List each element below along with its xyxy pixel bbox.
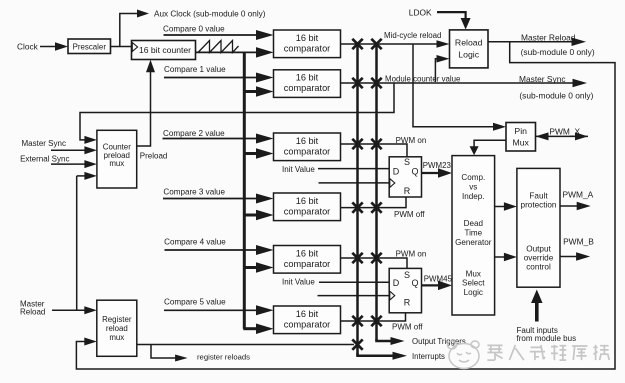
svg-text:Logic: Logic (464, 288, 483, 297)
svg-text:comparator: comparator (284, 146, 330, 156)
svg-text:16 bit: 16 bit (296, 33, 319, 43)
svg-text:Master Reload: Master Reload (521, 33, 576, 43)
svg-text:Mux: Mux (512, 137, 529, 147)
svg-text:D: D (393, 278, 400, 288)
svg-text:PWM off: PWM off (392, 322, 423, 331)
svg-text:reload: reload (106, 324, 128, 333)
svg-text:Time: Time (464, 228, 482, 237)
svg-text:mux: mux (109, 159, 124, 168)
svg-text:PWM on: PWM on (396, 250, 427, 259)
svg-text:16 bit: 16 bit (296, 309, 319, 319)
svg-text:Reload: Reload (20, 307, 45, 316)
svg-text:16 bit: 16 bit (296, 136, 319, 146)
svg-text:R: R (404, 297, 411, 307)
svg-text:Preload: Preload (140, 151, 168, 160)
svg-text:16 bit: 16 bit (296, 196, 319, 206)
svg-text:Init Value: Init Value (282, 165, 315, 174)
svg-text:mux: mux (109, 333, 124, 342)
svg-text:Master Sync: Master Sync (519, 74, 566, 84)
svg-text:comparator: comparator (284, 319, 330, 329)
svg-text:Q: Q (411, 167, 418, 177)
svg-text:(sub-module 0 only): (sub-module 0 only) (519, 91, 593, 101)
svg-text:S: S (404, 157, 410, 167)
svg-text:Compare 0 value: Compare 0 value (163, 24, 225, 33)
svg-text:Compare 3 value: Compare 3 value (163, 188, 225, 197)
svg-text:S: S (404, 270, 410, 280)
svg-text:Compare 4 value: Compare 4 value (164, 238, 226, 247)
svg-text:16 bit: 16 bit (296, 73, 319, 83)
svg-text:Pin: Pin (514, 126, 527, 136)
svg-text:Prescaler: Prescaler (73, 42, 107, 51)
svg-text:External Sync: External Sync (20, 154, 69, 163)
svg-text:16 bit: 16 bit (296, 248, 319, 258)
svg-text:Output: Output (526, 244, 551, 253)
svg-text:Init Value: Init Value (282, 278, 315, 287)
svg-text:LDOK: LDOK (409, 8, 432, 18)
svg-text:PWM_B: PWM_B (563, 236, 594, 246)
svg-text:Master Sync: Master Sync (22, 139, 66, 148)
svg-text:PWM on: PWM on (396, 136, 427, 145)
svg-text:R: R (404, 186, 411, 196)
svg-text:comparator: comparator (284, 206, 330, 216)
svg-text:override: override (524, 253, 554, 262)
svg-text:vs: vs (469, 182, 477, 191)
svg-text:Module counter value: Module counter value (385, 74, 461, 83)
svg-text:Dead: Dead (464, 219, 483, 228)
svg-text:Mid-cycle reload: Mid-cycle reload (384, 31, 441, 40)
svg-text:PWM_A: PWM_A (563, 189, 594, 199)
svg-text:Mux: Mux (466, 269, 481, 278)
svg-text:Reload: Reload (455, 37, 483, 47)
svg-text:Register: Register (102, 315, 132, 324)
svg-text:D: D (393, 167, 400, 177)
svg-text:comparator: comparator (284, 43, 330, 53)
svg-text:Clock: Clock (17, 41, 39, 51)
svg-text:comparator: comparator (284, 259, 330, 269)
svg-text:Fault: Fault (529, 191, 548, 200)
svg-text:Comp.: Comp. (461, 173, 485, 182)
svg-text:PWM23: PWM23 (423, 161, 452, 170)
svg-text:from module bus: from module bus (517, 334, 577, 343)
svg-text:PWM_X: PWM_X (549, 126, 580, 136)
svg-text:Select: Select (462, 279, 485, 288)
svg-text:PWM45: PWM45 (424, 274, 453, 283)
svg-text:protection: protection (521, 200, 557, 209)
svg-text:16 bit counter: 16 bit counter (139, 45, 191, 55)
svg-text:Indep.: Indep. (462, 192, 485, 201)
svg-text:Compare 1 value: Compare 1 value (164, 65, 226, 74)
svg-text:Compare 2 value: Compare 2 value (163, 129, 225, 138)
svg-text:register reloads: register reloads (197, 352, 250, 361)
svg-text:comparator: comparator (284, 83, 330, 93)
svg-text:Aux Clock (sub-module 0 only): Aux Clock (sub-module 0 only) (154, 10, 266, 19)
svg-text:PWM off: PWM off (394, 210, 425, 219)
svg-text:Interrupts: Interrupts (412, 352, 445, 361)
svg-text:(sub-module 0 only): (sub-module 0 only) (521, 47, 595, 57)
svg-text:Q: Q (411, 278, 418, 288)
svg-text:control: control (526, 263, 551, 272)
svg-text:Generator: Generator (455, 238, 492, 247)
svg-text:Compare 5 value: Compare 5 value (164, 297, 226, 306)
svg-text:Logic: Logic (458, 49, 479, 59)
